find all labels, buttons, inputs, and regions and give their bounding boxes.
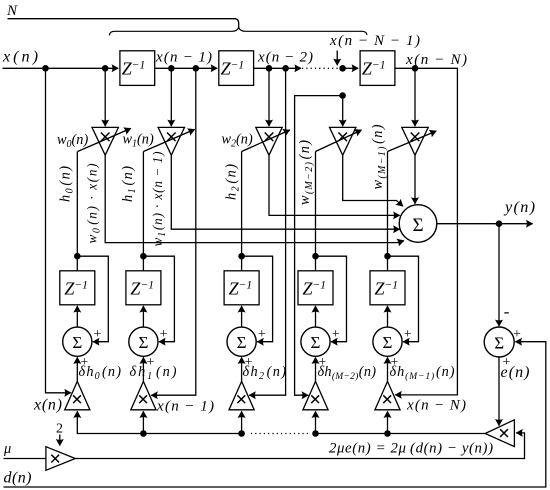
weight adjust arrow through U-w3 [316, 130, 362, 152]
wire tap into weight mult w0 [104, 68, 106, 126]
svg-text:Σ: Σ [311, 333, 321, 352]
multiplier U-w2 (variable weight) [256, 127, 282, 155]
svg-text:x(n): x(n) [2, 47, 38, 65]
svg-text:Z−1: Z−1 [122, 59, 146, 79]
svg-text:+: + [258, 327, 266, 342]
adder U-sum (output sum) [399, 205, 437, 243]
svg-text:δh(M−2)​(n): δh(M−2)​(n) [318, 364, 377, 382]
wire y(n) output [437, 223, 533, 225]
wire 2mu to feedback mult [75, 433, 524, 459]
multiplier U-x3 (x times 2mu-e) [303, 381, 328, 409]
svg-text:e(n): e(n) [501, 364, 530, 381]
wire tap into weight mult w1 [170, 68, 172, 126]
delay Z^-1 #2 [219, 51, 254, 86]
wire h1 recirculation loop [143, 256, 174, 342]
wire accumulator 3 to delay [315, 306, 317, 327]
adder U-err (error summer) [484, 327, 514, 357]
node bus junction 3 [312, 430, 319, 437]
svg-text:y(n): y(n) [503, 198, 535, 216]
wire e(n) down to feedback mult [498, 357, 500, 426]
svg-text:w1​(n) · x(n − 1): w1​(n) · x(n − 1) [150, 152, 168, 247]
node h3 loop junction [312, 253, 319, 260]
wire x(n) tap down to x-mult 1 [46, 68, 71, 393]
svg-text:Z−1: Z−1 [362, 59, 386, 79]
wire delta-h4 up to accumulator [387, 357, 389, 381]
wire h3(n) from delay up to weight [315, 152, 317, 271]
svg-text:h0​(n): h0​(n) [58, 166, 76, 202]
wire accumulator 4 to delay [387, 306, 389, 327]
svg-text:δh(M−1)​(n): δh(M−1)​(n) [390, 364, 455, 382]
wire d(n) to error summer [4, 342, 546, 487]
pointer arrow from 2 label [59, 435, 61, 446]
multiplier U-x0 (x times 2mu-e) [65, 381, 90, 409]
node w2 feed junction [266, 65, 273, 72]
wire accumulator 0 to delay [76, 306, 78, 327]
svg-text:δh2​(n): δh2​(n) [243, 364, 287, 382]
node h1 loop junction [140, 253, 147, 260]
wire h3 recirculation loop [316, 256, 347, 342]
wire tap into weight mult w(M-1) [414, 68, 416, 126]
wire x(n-1) segment [155, 67, 218, 69]
adder U-acc1 (accumulator) [129, 327, 158, 356]
svg-text:2μe(n) = 2μ (d(n) − y(n)): 2μe(n) = 2μ (d(n) − y(n)) [329, 441, 493, 457]
node h2 loop junction [238, 253, 245, 260]
wire product w(M-1) to adder [414, 155, 416, 204]
svg-text:+: + [160, 327, 168, 342]
svg-text:Z−1: Z−1 [229, 279, 253, 299]
node bus junction 2 [238, 430, 245, 437]
svg-text:x(n): x(n) [33, 396, 62, 413]
svg-text:Σ: Σ [412, 215, 423, 236]
svg-text:h1​(n): h1​(n) [120, 166, 138, 202]
wire h1(n) from delay up to weight [142, 152, 144, 271]
wire delta-h2 up to accumulator [241, 357, 243, 381]
multiplier U-w(M-2) (variable weight) [330, 127, 356, 155]
node bus junction 1 [140, 430, 147, 437]
svg-text:w2​(n): w2​(n) [222, 132, 253, 150]
delay Z^-1 (h0 store) [60, 271, 95, 305]
svg-text:x(n − 1): x(n − 1) [155, 50, 212, 66]
wire x(n-1) tap down to x-mult 2 [151, 68, 196, 395]
svg-text:w(M−2)​(n): w(M−2)​(n) [297, 140, 315, 205]
svg-text:w1​(n): w1​(n) [123, 132, 154, 150]
delay Z^-1 (h1 store) [126, 271, 161, 305]
node x(n-2) tap junction [282, 65, 289, 72]
svg-text:w0​(n) · x(n): w0​(n) · x(n) [85, 164, 103, 244]
delay Z^-1 (h2 store) [224, 271, 259, 305]
wire bus stub into x-mult 2 [241, 411, 243, 433]
svg-text:Z−1: Z−1 [375, 279, 399, 299]
svg-text:+: + [404, 327, 412, 342]
weight adjust arrow through U-w0 [78, 128, 131, 151]
svg-text:Z−1: Z−1 [221, 59, 245, 79]
wire x(n-N) tap down to x-mult 5 [395, 68, 458, 395]
svg-text:x(n − N): x(n − N) [406, 398, 466, 414]
wire accumulator 1 to delay [142, 306, 144, 327]
delay Z^-1 (h3 store) [298, 271, 333, 305]
svg-text:+: + [332, 327, 340, 342]
svg-text:Z−1: Z−1 [303, 279, 327, 299]
svg-text:Σ: Σ [494, 334, 504, 353]
wire x(n-N-1) route to x-mult 4 [295, 96, 343, 396]
node h4 loop junction [384, 253, 391, 260]
svg-text:-: - [504, 302, 510, 321]
svg-text:x(n − 1): x(n − 1) [156, 399, 214, 415]
wire delta-h1 up to accumulator [142, 357, 144, 381]
wire dotted continuation (top) [302, 67, 339, 69]
wire product w0x0 to adder [105, 155, 404, 242]
wire 2mu-e bus dotted segment [249, 433, 309, 435]
wire x(n-2) tap down to x-mult 3 [249, 68, 285, 395]
wire h4 recirculation loop [388, 256, 419, 342]
multiplier U-fb (2mu x e) [485, 420, 514, 447]
weight adjust arrow through U-w4 [388, 131, 437, 152]
multiplier U-w1 (variable weight) [158, 127, 184, 155]
wire product w1x1 to adder [171, 155, 399, 229]
node x(n) tap junction [42, 65, 49, 72]
adder U-acc4 (accumulator) [373, 327, 402, 356]
svg-text:+: + [513, 327, 521, 342]
svg-text:Σ: Σ [383, 333, 393, 352]
wire into last delay [343, 67, 359, 69]
node x(n-N) junction [412, 65, 419, 72]
node x(n-1) tap junction [193, 65, 200, 72]
wire 2mu-e bus (right solid part) [315, 433, 485, 435]
wire x(n) into first delay [3, 67, 119, 69]
node h0 loop junction [74, 253, 81, 260]
svg-text:2: 2 [56, 422, 63, 437]
wire 2mu-e bus (left part) into x-mult 1 [77, 411, 241, 433]
svg-text:Σ: Σ [72, 333, 82, 352]
multiplier U-x2 (x times 2mu-e) [229, 381, 254, 409]
wire product w(M-2) to adder [343, 155, 403, 206]
delay Z^-1 #1 [120, 51, 155, 86]
wire h0(n) from delay up to weight [76, 152, 78, 271]
wire bus stub into x-mult 1 [142, 411, 144, 433]
node w1 feed junction [168, 65, 175, 72]
svg-text:+: + [146, 355, 154, 370]
node bus junction 4 [384, 430, 391, 437]
wire bus stub into x-mult 3 [315, 411, 317, 433]
svg-text:Σ: Σ [138, 333, 148, 352]
wire h2 recirculation loop [242, 256, 273, 342]
svg-text:+: + [94, 327, 102, 342]
delay Z^-1 (h4 store) [370, 271, 405, 305]
svg-text:w0​(n): w0​(n) [57, 132, 88, 150]
weight adjust arrow through U-w1 [143, 129, 194, 151]
svg-text:h2​(n): h2​(n) [224, 164, 242, 200]
wire h2(n) from delay up to weight [241, 152, 243, 271]
multiplier U-w(M-1) (variable weight) [402, 127, 428, 155]
wire accumulator 2 to delay [241, 306, 243, 327]
svg-text:N: N [6, 3, 18, 19]
adder U-acc2 (accumulator) [227, 327, 256, 356]
wire bus stub into x-mult 4 [387, 411, 389, 433]
wire h0 recirculation loop [77, 256, 108, 342]
svg-text:μ: μ [3, 441, 11, 457]
wire tap into weight mult w(M-2) [342, 96, 344, 127]
overbrace (width N) [109, 28, 367, 36]
adder U-acc3 (accumulator) [301, 327, 330, 356]
delay Z^-1 #3 [360, 51, 395, 86]
multiplier U-x4 (x times 2mu-e) [375, 381, 400, 409]
pointer arrow from x(n-N-1) label [336, 51, 338, 66]
amplifier U-2mu (gain 2) [46, 447, 75, 471]
svg-text:Z−1: Z−1 [130, 279, 154, 299]
svg-text:x(n − N − 1): x(n − N − 1) [329, 33, 420, 49]
svg-text:d(n): d(n) [4, 469, 32, 486]
node y(n) junction [496, 220, 503, 227]
wire delta-h3 up to accumulator [315, 357, 317, 381]
wire product w2x2 to adder [269, 155, 400, 215]
N connector line to brace cusp [8, 19, 239, 28]
wire h4(n) from delay up to weight [387, 152, 389, 271]
svg-text:Σ: Σ [237, 333, 247, 352]
node x(n-N-1) junction [339, 65, 346, 72]
wire tap into weight mult w2 [268, 68, 270, 126]
svg-text:δh0​(n): δh0​(n) [79, 364, 122, 382]
svg-text:x(n − 2): x(n − 2) [257, 50, 313, 66]
wire x(n-2) segment with continuation arrow [254, 67, 301, 69]
wire y(n) feedback down to error summer [498, 224, 500, 327]
node w0 feed junction [102, 65, 109, 72]
multiplier U-w0 (variable weight) [92, 127, 118, 155]
adder U-acc0 (accumulator) [63, 327, 92, 356]
wire mu into gain amp [4, 458, 46, 460]
weight adjust arrow through U-w2 [242, 130, 290, 152]
multiplier U-x1 (x times 2mu-e) [131, 381, 156, 409]
wire delta-h0 up to accumulator [76, 357, 78, 381]
svg-text:Z−1: Z−1 [64, 279, 88, 299]
node x(n-N-1) lower junction [339, 92, 346, 99]
svg-text:w(M−1)​(n): w(M−1)​(n) [370, 124, 388, 189]
